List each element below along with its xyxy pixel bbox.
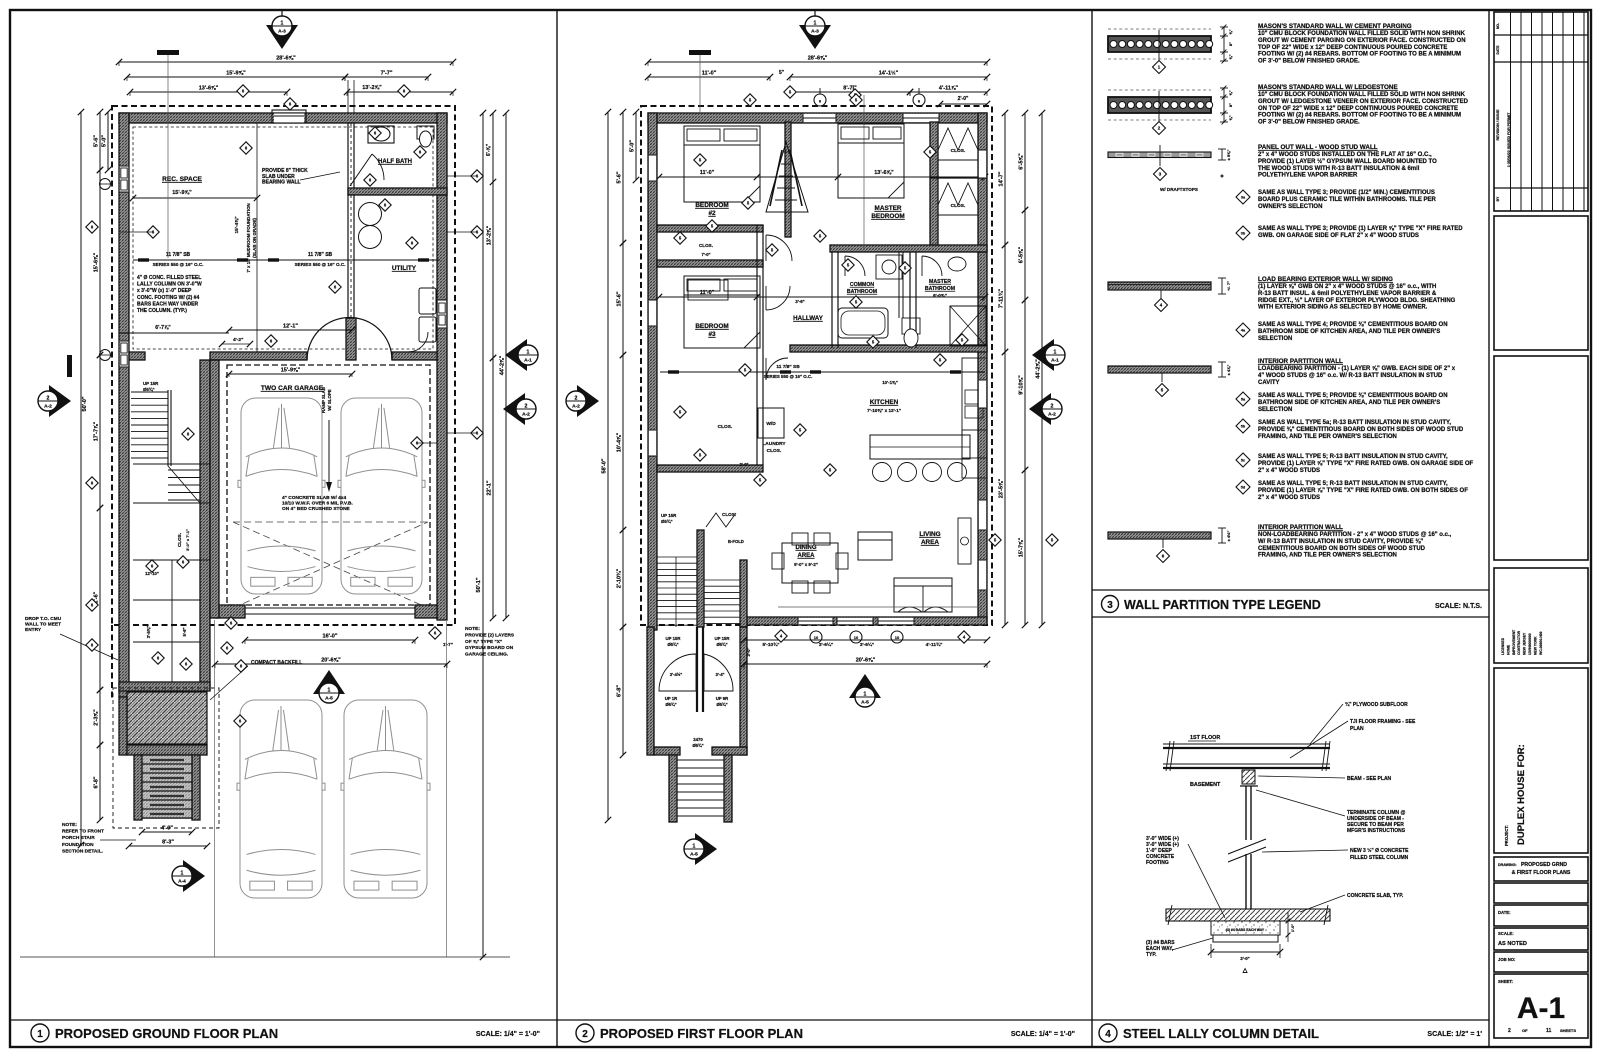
svg-text:4'-11⅞": 4'-11⅞" [939, 86, 959, 92]
svg-text:5'-0": 5'-0" [102, 135, 108, 147]
svg-text:WC-00000-H00: WC-00000-H00 [1539, 631, 1543, 655]
svg-text:ON 4" BED CRUSHED STONE: ON 4" BED CRUSHED STONE [282, 506, 351, 512]
svg-text:MASTER: MASTER [929, 279, 951, 285]
svg-text:COMPACT BACKFILL: COMPACT BACKFILL [251, 660, 302, 666]
svg-text:PROPOSED FIRST FLOOR PLAN: PROPOSED FIRST FLOOR PLAN [600, 1026, 803, 1041]
svg-text:MASON'S STANDARD WALL W/ CEMEN: MASON'S STANDARD WALL W/ CEMENT PARGING [1258, 23, 1412, 30]
svg-text:PLAN: PLAN [1350, 726, 1364, 732]
svg-text:CLOS.: CLOS. [699, 243, 713, 248]
svg-text:A-1: A-1 [1051, 358, 1059, 364]
svg-text:44'-2⅝": 44'-2⅝" [500, 355, 506, 375]
svg-text:PROVIDE (1) LAYER ⅞" TYPE "X": PROVIDE (1) LAYER ⅞" TYPE "X" FIRE RATED… [1258, 488, 1468, 494]
svg-text:DINING: DINING [796, 545, 817, 551]
svg-text:A-2: A-2 [522, 412, 530, 418]
svg-text:5c: 5c [1241, 459, 1245, 463]
svg-text:3'-6": 3'-6" [795, 299, 804, 304]
svg-text:IMPROVEMENT: IMPROVEMENT [1512, 629, 1516, 655]
svg-text:2: 2 [525, 404, 528, 410]
svg-text:28'-6⅝": 28'-6⅝" [276, 56, 296, 62]
svg-text:STEEL LALLY COLUMN DETAIL: STEEL LALLY COLUMN DETAIL [1123, 1026, 1319, 1041]
svg-text:BARS EACH WAY UNDER: BARS EACH WAY UNDER [137, 301, 199, 307]
svg-text:W/D: W/D [766, 421, 776, 427]
svg-text:⅝": ⅝" [1228, 29, 1233, 34]
svg-text:NO.: NO. [1496, 23, 1500, 29]
svg-text:#3: #3 [708, 331, 716, 338]
svg-text:20'-6⅝": 20'-6⅝" [321, 658, 341, 664]
svg-text:50'-1": 50'-1" [476, 577, 482, 592]
svg-text:A-2: A-2 [1048, 412, 1056, 418]
svg-text:FILLED STEEL COLUMN: FILLED STEEL COLUMN [1350, 855, 1409, 861]
svg-text:LICENSED: LICENSED [1501, 637, 1505, 655]
svg-text:LOAD BEARING EXTERIOR WALL W/: LOAD BEARING EXTERIOR WALL W/ SIDING [1258, 276, 1393, 283]
svg-text:Ø5¾": Ø5¾" [665, 702, 676, 707]
svg-text:⅝": ⅝" [1228, 90, 1233, 95]
svg-text:1: 1 [864, 692, 867, 698]
svg-text:LALLY COLUMN ON 3'-0"W: LALLY COLUMN ON 3'-0"W [137, 282, 202, 288]
svg-text:± 4½": ± 4½" [1226, 531, 1231, 542]
svg-text:± 4⅞": ± 4⅞" [1226, 365, 1231, 376]
svg-text:FRAMING, AND TILE PER OWNER'S: FRAMING, AND TILE PER OWNER'S SELECTION [1258, 553, 1397, 559]
svg-text:REFER TO FRONT: REFER TO FRONT [62, 829, 104, 835]
svg-text:A-1: A-1 [1517, 992, 1565, 1025]
svg-text:PROPOSED GRND: PROPOSED GRND [1521, 862, 1567, 868]
svg-text:Ø5¾": Ø5¾" [143, 387, 155, 392]
svg-text:10: 10 [814, 635, 819, 640]
svg-text:& FIRST FLOOR PLANS: & FIRST FLOOR PLANS [1512, 870, 1571, 876]
svg-text:FOOTING W/ (2) #4 REBARS. BOTT: FOOTING W/ (2) #4 REBARS. BOTTOM OF FOOT… [1258, 52, 1461, 58]
svg-text:12'-1": 12'-1" [283, 324, 298, 330]
svg-text:BATHROOM: BATHROOM [925, 286, 955, 292]
svg-text:3'-4": 3'-4" [715, 672, 724, 677]
svg-text:8'-3": 8'-3" [162, 840, 174, 846]
svg-text:4" Ø CONC. FILLED STEEL: 4" Ø CONC. FILLED STEEL [137, 275, 201, 281]
svg-text:BASEMENT: BASEMENT [1190, 782, 1221, 788]
svg-text:5'-6": 5'-6" [182, 627, 187, 636]
svg-text:2: 2 [582, 1029, 588, 1040]
svg-text:CONTRACTOR: CONTRACTOR [1517, 630, 1521, 655]
svg-text:15'-9⅝": 15'-9⅝" [226, 71, 246, 77]
svg-text:2: 2 [1508, 1028, 1511, 1034]
svg-text:NON-LOADBEARING PARTITION - 2": NON-LOADBEARING PARTITION - 2" x 4" WOOD… [1258, 532, 1452, 538]
svg-text:A-1: A-1 [524, 358, 532, 364]
svg-text:BEDROOM: BEDROOM [871, 213, 904, 220]
svg-text:44'-2⅝": 44'-2⅝" [1036, 359, 1042, 379]
svg-text:6'-8": 6'-8" [617, 685, 623, 697]
svg-text:3'-4½": 3'-4½" [670, 672, 683, 677]
svg-text:MASON'S STANDARD WALL W/ LEDGE: MASON'S STANDARD WALL W/ LEDGESTONE [1258, 84, 1398, 91]
svg-text:(1) LAYER ⅝" GWB ON 2" x 4" WO: (1) LAYER ⅝" GWB ON 2" x 4" WOOD STUDS @… [1258, 284, 1436, 290]
svg-text:UP 9R: UP 9R [716, 696, 729, 701]
svg-text:15'-6": 15'-6" [617, 291, 623, 306]
svg-text:4'-0": 4'-0" [161, 826, 173, 832]
svg-text:PANEL OUT WALL - WOOD STUD WAL: PANEL OUT WALL - WOOD STUD WALL [1258, 144, 1378, 151]
svg-text:SAME AS WALL TYPE 5; R-13 BATT: SAME AS WALL TYPE 5; R-13 BATT INSULATIO… [1258, 481, 1448, 487]
svg-text:28'-6⅝": 28'-6⅝" [808, 56, 828, 62]
svg-text:1'-7": 1'-7" [443, 642, 453, 647]
svg-text:PORCH STAIR: PORCH STAIR [62, 835, 95, 841]
svg-text:7'-0": 7'-0" [701, 252, 710, 257]
svg-text:Ø5¾": Ø5¾" [667, 642, 678, 647]
svg-text:SELECTION: SELECTION [1258, 407, 1292, 413]
svg-text:4: 4 [1105, 1029, 1111, 1040]
svg-text:SAME AS WALL TYPE 5a; R-13 BAT: SAME AS WALL TYPE 5a; R-13 BATT INSULATI… [1258, 420, 1451, 426]
svg-text:A-5: A-5 [861, 700, 869, 706]
svg-text:SAME AS WALL TYPE 3; PROVIDE (: SAME AS WALL TYPE 3; PROVIDE (1/2" MIN.)… [1258, 190, 1435, 196]
svg-text:⅝": ⅝" [1228, 54, 1233, 59]
svg-text:UTILITY: UTILITY [392, 265, 417, 272]
svg-text:W/ R-13 BATT INSULATION IN STU: W/ R-13 BATT INSULATION IN STUD CAVITY, … [1258, 539, 1423, 545]
svg-text:CLOS.: CLOS. [177, 533, 182, 547]
svg-text:6'-8": 6'-8" [94, 776, 100, 788]
svg-text:7'-10⅝" x 13'-1": 7'-10⅝" x 13'-1" [867, 408, 901, 413]
svg-text:16'-0": 16'-0" [323, 634, 338, 640]
svg-text:Ø5¾": Ø5¾" [716, 642, 727, 647]
svg-text:A-5: A-5 [690, 852, 698, 858]
svg-text:BATHROOM SIDE OF KITCHEN AREA,: BATHROOM SIDE OF KITCHEN AREA, AND TILE … [1258, 329, 1440, 335]
svg-text:NEW YORK: NEW YORK [1533, 636, 1537, 655]
svg-text:GROUT W/ LEDGESTONE VENEER ON: GROUT W/ LEDGESTONE VENEER ON EXTERIOR F… [1258, 99, 1469, 105]
svg-text:13'-2⅝": 13'-2⅝" [362, 85, 382, 91]
svg-text:SCALE: 1/4" = 1'-0": SCALE: 1/4" = 1'-0" [1011, 1031, 1075, 1038]
svg-text:COMMON: COMMON [850, 282, 874, 288]
svg-text:GARAGE CEILING.: GARAGE CEILING. [465, 652, 508, 658]
svg-text:UP 1R: UP 1R [665, 696, 678, 701]
svg-text:1: 1 [693, 844, 696, 850]
svg-text:THE COLUMN. (TYP.): THE COLUMN. (TYP.) [137, 308, 187, 314]
svg-text:ON TOP OF 22" WIDE x 12" DEEP: ON TOP OF 22" WIDE x 12" DEEP CONTINUOUS… [1258, 106, 1458, 112]
svg-text:4" CONCRETE SLAB W/ 4x4: 4" CONCRETE SLAB W/ 4x4 [282, 495, 346, 501]
svg-text:B-FOLD: B-FOLD [728, 539, 744, 544]
svg-text:11 7/8" SB: 11 7/8" SB [308, 252, 333, 258]
svg-text:10/10 W.W.F. OVER 6 MIL P.V.B.: 10/10 W.W.F. OVER 6 MIL P.V.B. [282, 501, 353, 507]
svg-text:+/- 7": +/- 7" [1226, 281, 1231, 291]
svg-text:11 7/8" SB: 11 7/8" SB [166, 252, 191, 258]
svg-text:58'-0": 58'-0" [602, 458, 608, 473]
svg-text:HOME: HOME [1506, 644, 1510, 655]
svg-text:UP 15R: UP 15R [661, 513, 677, 518]
svg-text:1'-0": 1'-0" [1291, 924, 1295, 932]
svg-text:A-5: A-5 [325, 696, 333, 702]
svg-text:INTERIOR PARTITION WALL: INTERIOR PARTITION WALL [1258, 358, 1343, 365]
svg-text:Ø5¾": Ø5¾" [661, 519, 673, 524]
svg-text:BOARD PLUS CERAMIC TILE WITHIN: BOARD PLUS CERAMIC TILE WITHIN BATHROOMS… [1258, 197, 1437, 203]
svg-text:6'-⅝": 6'-⅝" [486, 143, 492, 156]
svg-text:9'-10⅝": 9'-10⅝" [1019, 375, 1025, 395]
svg-text:3'-5⅝": 3'-5⅝" [146, 626, 151, 639]
svg-text:(SLAB ON GRADE): (SLAB ON GRADE) [252, 218, 257, 258]
svg-text:13'-6⅝": 13'-6⅝" [199, 86, 219, 92]
svg-text:JOB NO:: JOB NO: [1498, 957, 1515, 962]
svg-text:AS NOTED: AS NOTED [1498, 941, 1527, 947]
svg-text:5'-6": 5'-6" [94, 135, 100, 147]
svg-text:13VH0000000: 13VH0000000 [1528, 633, 1532, 655]
svg-text:4" WOOD STUDS @ 16" o.c. W/ R-: 4" WOOD STUDS @ 16" o.c. W/ R-13 BATT IN… [1258, 373, 1443, 379]
svg-text:3'-0": 3'-0" [746, 647, 751, 656]
svg-text:SERIES 550 @ 16" O.C.: SERIES 550 @ 16" O.C. [295, 262, 346, 267]
svg-text:CEMENTITIOUS BOARD ON BOTH SID: CEMENTITIOUS BOARD ON BOTH SIDES OF WOOD… [1258, 546, 1426, 552]
svg-text:10: 10 [854, 635, 859, 640]
svg-text:UP 15R: UP 15R [715, 636, 731, 641]
svg-text:OF 3'-0" BELOW FINISHED GRADE.: OF 3'-0" BELOW FINISHED GRADE. [1258, 59, 1360, 65]
svg-text:NEW JERSEY: NEW JERSEY [1523, 632, 1527, 655]
svg-text:7' x 14' MUDROOM FOUNDATION: 7' x 14' MUDROOM FOUNDATION [246, 203, 251, 272]
svg-text:x 3'-0"W (x) 1'-0" DEEP: x 3'-0"W (x) 1'-0" DEEP [137, 288, 192, 294]
svg-text:SCALE: 1/2" = 1': SCALE: 1/2" = 1' [1427, 1031, 1482, 1038]
svg-text:1: 1 [281, 21, 284, 27]
svg-text:3: 3 [1107, 600, 1113, 611]
svg-text:15'-7⅝": 15'-7⅝" [1019, 537, 1025, 557]
svg-text:DRAWING:: DRAWING: [1498, 863, 1517, 867]
svg-text:1: 1 [1054, 350, 1057, 356]
svg-text:4'-11¾": 4'-11¾" [926, 641, 943, 648]
svg-text:DATE: DATE [1496, 45, 1500, 55]
svg-text:BEARING WALL: BEARING WALL [262, 180, 301, 186]
svg-text:DUPLEX HOUSE FOR:: DUPLEX HOUSE FOR: [1516, 744, 1527, 845]
svg-text:13'-2⅝": 13'-2⅝" [487, 225, 493, 245]
svg-text:BY: BY [1496, 196, 1500, 201]
svg-text:LAUNDRY: LAUNDRY [762, 441, 786, 447]
svg-text:3'-6¼": 3'-6¼" [860, 641, 874, 648]
svg-text:SCALE: N.T.S.: SCALE: N.T.S. [1435, 603, 1482, 610]
svg-text:5": 5" [779, 70, 785, 76]
svg-text:1: 1 [37, 1029, 43, 1040]
svg-text:PROVIDE ⅜" CEMENTITIOUS BOARD: PROVIDE ⅜" CEMENTITIOUS BOARD ON BOTH SI… [1258, 427, 1464, 433]
svg-text:THE WOOD STUDS WITH R-13 BATT: THE WOOD STUDS WITH R-13 BATT INSULATION… [1258, 166, 1420, 172]
svg-text:POLYETHYLENE VAPOR BARRIER: POLYETHYLENE VAPOR BARRIER [1258, 173, 1358, 179]
svg-text:R-13 BATT INSUL. & 6mil POLYET: R-13 BATT INSUL. & 6mil POLYETHYLENE VAP… [1258, 291, 1437, 297]
svg-text:TWO CAR GARAGE: TWO CAR GARAGE [261, 385, 324, 392]
svg-text:KITCHEN: KITCHEN [870, 399, 899, 406]
svg-text:CONC. FOOTING W/ (2) #4: CONC. FOOTING W/ (2) #4 [137, 295, 199, 301]
svg-text:¾" PLYWOOD SUBFLOOR: ¾" PLYWOOD SUBFLOOR [1345, 701, 1408, 708]
svg-text:15'-6⅝": 15'-6⅝" [94, 252, 100, 272]
svg-text:5'-0": 5'-0" [630, 140, 636, 152]
svg-text:1: 1 [328, 688, 331, 694]
svg-text:PROJECT:: PROJECT: [1504, 825, 1509, 846]
svg-text:BEDROOM: BEDROOM [695, 323, 728, 330]
svg-text:ENTRY: ENTRY [25, 627, 42, 633]
svg-text:OF 3'-0" BELOW FINISHED GRADE.: OF 3'-0" BELOW FINISHED GRADE. [1258, 120, 1360, 126]
svg-text:17'-7⅞": 17'-7⅞" [94, 421, 100, 441]
svg-text:5'-6": 5'-6" [617, 171, 623, 183]
svg-text:6'-7⅞": 6'-7⅞" [155, 325, 171, 331]
svg-text:3b: 3b [1241, 232, 1246, 236]
svg-text:20'-6⅝": 20'-6⅝" [856, 658, 876, 664]
svg-text:W/ SLOPE: W/ SLOPE [327, 389, 332, 411]
svg-text:5'-10¾": 5'-10¾" [762, 641, 779, 648]
svg-text:3'-0" x 7'-1": 3'-0" x 7'-1" [185, 529, 190, 551]
svg-text:2470: 2470 [693, 737, 703, 742]
svg-text:TYP.: TYP. [1146, 952, 1157, 958]
svg-text:1: 1 [181, 871, 184, 877]
svg-text:TJI FLOOR FRAMING - SEE: TJI FLOOR FRAMING - SEE [1350, 719, 1416, 725]
svg-text:2: 2 [47, 396, 50, 402]
svg-text:SCALE:: SCALE: [1498, 931, 1514, 936]
svg-text:2" x 4" WOOD STUDS: 2" x 4" WOOD STUDS [1258, 468, 1320, 474]
svg-text:DROP T.O. CMU: DROP T.O. CMU [25, 616, 62, 622]
svg-text:2: 2 [575, 396, 578, 402]
svg-text:WITH EXTERIOR SIDING AS SELECT: WITH EXTERIOR SIDING AS SELECTED BY HOME… [1258, 305, 1428, 311]
svg-text:11: 11 [1546, 1028, 1552, 1034]
svg-text:23'-5⅝": 23'-5⅝" [999, 478, 1005, 498]
svg-text:#2: #2 [708, 210, 716, 217]
svg-text:3'-0": 3'-0" [1240, 956, 1249, 961]
svg-text:SHEETS: SHEETS [1560, 1028, 1576, 1033]
svg-text:BEAM - SEE PLAN: BEAM - SEE PLAN [1347, 776, 1392, 782]
svg-text:NOTE:: NOTE: [465, 626, 480, 632]
svg-text:CLOS.: CLOS. [951, 203, 966, 209]
svg-text:REVISION / ISSUE: REVISION / ISSUE [1496, 109, 1500, 141]
svg-text:GROUT W/ CEMENT PARGING ON EXT: GROUT W/ CEMENT PARGING ON EXTERIOR FACE… [1258, 38, 1466, 44]
svg-text:6'-5⅝": 6'-5⅝" [1019, 153, 1025, 170]
svg-text:MFGR'S INSTRUCTIONS: MFGR'S INSTRUCTIONS [1347, 828, 1406, 834]
svg-text:9'-0" x 9'-2": 9'-0" x 9'-2" [794, 562, 818, 567]
svg-text:11 7/8" SB: 11 7/8" SB [776, 364, 800, 370]
svg-text:CLOS.: CLOS. [951, 148, 966, 154]
svg-text:3'-6¼": 3'-6¼" [819, 641, 833, 648]
svg-text:OWNER'S SELECTION: OWNER'S SELECTION [1258, 204, 1322, 210]
svg-text:MASTER: MASTER [875, 205, 902, 212]
svg-text:15'-9⅝": 15'-9⅝" [281, 368, 301, 374]
svg-text:(3) #4 BARS EACH WAY: (3) #4 BARS EACH WAY [1226, 928, 1265, 932]
svg-text:8": 8" [1228, 42, 1233, 46]
svg-text:HALLWAY: HALLWAY [793, 315, 824, 322]
svg-text:INTERIOR PARTITION WALL: INTERIOR PARTITION WALL [1258, 524, 1343, 531]
svg-text:2: 2 [1051, 404, 1054, 410]
svg-text:A-3: A-3 [278, 29, 286, 35]
svg-text:SAME AS WALL TYPE 3; PROVIDE (: SAME AS WALL TYPE 3; PROVIDE (1) LAYER ⅝… [1258, 226, 1463, 232]
svg-text:AREA: AREA [797, 553, 815, 559]
svg-text:A-2: A-2 [44, 404, 52, 410]
svg-text:CLOS.: CLOS. [767, 448, 782, 454]
svg-text:SHEET:: SHEET: [1498, 979, 1513, 984]
svg-text:11'-0": 11'-0" [700, 170, 715, 176]
svg-text:NOTE:: NOTE: [62, 822, 77, 828]
svg-text:FRAMING, AND TILE PER OWNER'S: FRAMING, AND TILE PER OWNER'S SELECTION [1258, 434, 1397, 440]
svg-text:1ST FLOOR: 1ST FLOOR [1190, 735, 1220, 741]
svg-text:PROVIDE (2) LAYERS: PROVIDE (2) LAYERS [465, 632, 515, 638]
svg-text:1: 1 [527, 350, 530, 356]
svg-text:A-3: A-3 [811, 29, 819, 35]
svg-text:CONCRETE SLAB, TYP.: CONCRETE SLAB, TYP. [1347, 893, 1404, 899]
svg-text:WALL PARTITION TYPE LEGEND: WALL PARTITION TYPE LEGEND [1124, 598, 1321, 612]
svg-text:A-4: A-4 [178, 879, 186, 885]
svg-text:14'-7": 14'-7" [999, 171, 1005, 186]
svg-text:11'-0": 11'-0" [702, 71, 717, 77]
svg-text:1: 1 [814, 21, 817, 27]
svg-text:SAME AS WALL TYPE 5; R-13 BATT: SAME AS WALL TYPE 5; R-13 BATT INSULATIO… [1258, 454, 1448, 460]
svg-text:SERIES 550 @ 16" O.C.: SERIES 550 @ 16" O.C. [764, 374, 813, 379]
svg-text:10'-4⅝": 10'-4⅝" [617, 432, 623, 452]
svg-text:△: △ [1242, 967, 1248, 974]
svg-text:⅝": ⅝" [1228, 115, 1233, 120]
svg-text:SECTION DETAIL.: SECTION DETAIL. [62, 848, 103, 854]
svg-text:2'-10¾": 2'-10¾" [616, 568, 623, 588]
svg-text:7'-11¾": 7'-11¾" [998, 289, 1005, 309]
svg-text:6'-5⅝": 6'-5⅝" [1019, 246, 1025, 263]
svg-text:W/ DRAFTSTOPS: W/ DRAFTSTOPS [1160, 187, 1198, 192]
svg-text:10" CMU BLOCK FOUNDATION WALL: 10" CMU BLOCK FOUNDATION WALL FILLED SOL… [1258, 92, 1466, 98]
svg-text:DATE:: DATE: [1498, 910, 1510, 915]
svg-text:5b: 5b [1241, 425, 1246, 429]
svg-text:LOADBEARING PARTITION - (1) LA: LOADBEARING PARTITION - (1) LAYER ⅝" GWB… [1258, 366, 1456, 372]
svg-text:PROPOSED GROUND FLOOR PLAN: PROPOSED GROUND FLOOR PLAN [55, 1026, 278, 1041]
svg-text:HALF BATH: HALF BATH [378, 159, 412, 165]
svg-text:RIDGE EXT., ½" LAYER OF EXTERI: RIDGE EXT., ½" LAYER OF EXTERIOR PLYWOOD… [1258, 297, 1456, 304]
svg-text:BATHROOM SIDE OF KITCHEN AREA,: BATHROOM SIDE OF KITCHEN AREA, AND TILE … [1258, 400, 1440, 406]
svg-text:15'-9⅝": 15'-9⅝" [172, 190, 192, 196]
svg-text:2'-0": 2'-0" [739, 462, 748, 467]
svg-text:UP 15R: UP 15R [666, 636, 682, 641]
svg-text:TOP OF 22" WIDE x 12" DEEP CON: TOP OF 22" WIDE x 12" DEEP CONTINUOUS PO… [1258, 45, 1447, 51]
svg-text:PROVIDE (1) LAYER ⅝" TYPE "X": PROVIDE (1) LAYER ⅝" TYPE "X" FIRE RATED… [1258, 461, 1474, 467]
svg-text:5d: 5d [1241, 486, 1246, 490]
svg-text:10'-1⅝": 10'-1⅝" [882, 380, 898, 385]
svg-text:OF: OF [1522, 1028, 1528, 1033]
svg-text:50'-0": 50'-0" [82, 396, 88, 411]
svg-text:FOOTING W/ (2) #4 REBARS. BOTT: FOOTING W/ (2) #4 REBARS. BOTTOM OF FOOT… [1258, 113, 1461, 119]
svg-text:CLOS.: CLOS. [718, 424, 733, 430]
svg-text:2'-3⅝": 2'-3⅝" [94, 709, 100, 726]
svg-text:RAMP SLAB: RAMP SLAB [321, 387, 326, 413]
svg-text:15'-4⅝": 15'-4⅝" [234, 216, 240, 233]
svg-text:WALL TO MEET: WALL TO MEET [25, 622, 61, 628]
svg-text:UP 15R: UP 15R [143, 381, 159, 386]
svg-text:A-2: A-2 [572, 404, 580, 410]
svg-text:10: 10 [895, 635, 900, 640]
svg-text:AREA: AREA [921, 539, 939, 546]
svg-text:8": 8" [1228, 103, 1233, 107]
svg-text:BEDROOM: BEDROOM [695, 202, 728, 209]
svg-text:7'-7": 7'-7" [381, 71, 393, 77]
svg-text:4'-2": 4'-2" [233, 337, 243, 343]
svg-text:FOOTING: FOOTING [1146, 860, 1169, 866]
svg-text:SAME AS WALL TYPE 4; PROVIDE ⅜: SAME AS WALL TYPE 4; PROVIDE ⅜" CEMENTIT… [1258, 322, 1448, 328]
svg-text:GYPSUM BOARD ON: GYPSUM BOARD ON [465, 645, 514, 651]
svg-text:2" x 4" WOOD STUDS INSTALLED O: 2" x 4" WOOD STUDS INSTALLED ON THE FLAT… [1258, 152, 1432, 158]
svg-text:BATHROOM: BATHROOM [847, 289, 877, 295]
svg-text:LIVING: LIVING [919, 531, 940, 538]
svg-text:NEW 3 ½" Ø CONCRETE: NEW 3 ½" Ø CONCRETE [1350, 847, 1409, 854]
svg-text:CAVITY: CAVITY [1258, 380, 1280, 386]
svg-text:14'-1½": 14'-1½" [879, 70, 899, 77]
svg-text:13'-6⅝": 13'-6⅝" [874, 170, 894, 176]
svg-text:Ø5¾": Ø5¾" [716, 702, 727, 707]
svg-text:SERIES 550 @ 16" O.C.: SERIES 550 @ 16" O.C. [153, 262, 204, 267]
svg-text:GWB. ON GARAGE SIDE OF FLAT 2": GWB. ON GARAGE SIDE OF FLAT 2" x 4" WOOD… [1258, 233, 1419, 239]
svg-text:FOUNDATION: FOUNDATION [62, 842, 94, 848]
svg-text:22'-1": 22'-1" [487, 480, 493, 495]
svg-text:± 5⅝": ± 5⅝" [1226, 150, 1231, 161]
svg-text:SCALE: 1/4" = 1'-0": SCALE: 1/4" = 1'-0" [476, 1031, 540, 1038]
svg-text:Ø5¾": Ø5¾" [692, 743, 703, 748]
svg-text:SELECTION: SELECTION [1258, 336, 1292, 342]
svg-text:1 05/06/22 ISSUED FOR PERMIT: 1 05/06/22 ISSUED FOR PERMIT [1507, 112, 1511, 167]
svg-text:2'-0": 2'-0" [958, 96, 969, 102]
svg-text:10" CMU BLOCK FOUNDATION WALL: 10" CMU BLOCK FOUNDATION WALL FILLED SOL… [1258, 31, 1466, 37]
svg-text:OF ⅝" TYPE "X": OF ⅝" TYPE "X" [465, 639, 502, 645]
svg-text:SAME AS WALL TYPE 5; PROVIDE ⅜: SAME AS WALL TYPE 5; PROVIDE ⅜" CEMENTIT… [1258, 393, 1448, 399]
svg-text:PROVIDE (1) LAYER ½" GYPSUM WA: PROVIDE (1) LAYER ½" GYPSUM WALL BOARD M… [1258, 158, 1437, 165]
svg-text:2" x 4" WOOD STUDS: 2" x 4" WOOD STUDS [1258, 495, 1320, 501]
